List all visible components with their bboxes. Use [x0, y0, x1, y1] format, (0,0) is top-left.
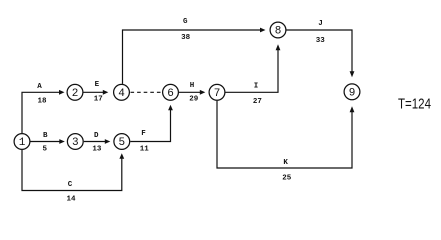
arrowhead into node 2: [59, 90, 65, 95]
arrowhead into node 7: [200, 90, 206, 95]
svg-text:B: B: [43, 132, 48, 140]
node 4: [114, 84, 130, 100]
wire activity H (node6 to node7): [179, 91, 200, 93]
svg-text:33: 33: [316, 37, 326, 45]
svg-text:4: 4: [118, 88, 125, 100]
svg-text:5: 5: [42, 146, 47, 154]
node 6: [163, 84, 179, 100]
node 9: [344, 84, 360, 100]
svg-text:T=124: T=124: [398, 96, 431, 113]
svg-text:5: 5: [118, 137, 125, 149]
svg-text:11: 11: [140, 145, 150, 153]
svg-text:25: 25: [282, 174, 292, 182]
svg-text:F: F: [141, 130, 146, 138]
svg-text:29: 29: [189, 95, 199, 103]
svg-text:G: G: [183, 18, 188, 26]
wire activity K (node7 down, right, up into node9): [217, 101, 352, 168]
arrowhead into node 5 bottom: [119, 153, 124, 159]
svg-text:E: E: [95, 81, 100, 89]
svg-text:K: K: [283, 159, 288, 167]
svg-text:8: 8: [275, 26, 282, 38]
wire activity J (node8 right then down into node9): [287, 30, 353, 72]
node 1: [14, 134, 30, 150]
node 8: [270, 22, 286, 38]
wire activity B (node1 to node3): [31, 141, 60, 143]
wire activity D (node3 to node5): [84, 141, 106, 143]
arrowhead into node 8: [260, 28, 266, 33]
svg-text:J: J: [318, 20, 323, 28]
svg-text:3: 3: [72, 137, 79, 149]
svg-text:38: 38: [181, 34, 191, 42]
arrowhead into node 9 bottom: [350, 106, 355, 112]
svg-text:7: 7: [214, 88, 221, 100]
svg-text:27: 27: [253, 98, 262, 106]
dummy activity wire (dashed node4 to node6): [131, 91, 162, 93]
arrowhead into node 5: [105, 139, 111, 144]
svg-text:1: 1: [19, 137, 26, 149]
wire activity I (node7 right then up into node8): [226, 50, 279, 93]
wire activity C (node1 down, right, up into node5): [22, 150, 122, 191]
svg-text:6: 6: [167, 88, 174, 100]
node 5: [114, 134, 130, 150]
svg-text:2: 2: [72, 88, 79, 100]
svg-text:A: A: [37, 83, 42, 91]
arrowhead into node 9 top: [350, 71, 355, 77]
node 2: [67, 84, 83, 100]
svg-text:I: I: [254, 83, 259, 91]
wire activity F (node5 right then up into node6): [130, 110, 170, 142]
svg-text:13: 13: [92, 145, 102, 153]
arrowhead into node 6 bottom: [168, 105, 173, 111]
arrowhead into node 8 bottom: [276, 44, 281, 50]
svg-text:H: H: [190, 82, 195, 90]
svg-text:17: 17: [94, 96, 103, 104]
arrowhead into node 4: [103, 90, 109, 95]
svg-text:9: 9: [349, 88, 356, 100]
node 7: [209, 84, 225, 100]
wire activity E (node2 to node4): [84, 91, 104, 93]
svg-text:D: D: [94, 132, 99, 140]
svg-text:14: 14: [66, 195, 76, 203]
wire activity G (node4 up, right into node8): [123, 30, 261, 84]
arrowhead into node 3: [59, 139, 65, 144]
svg-text:18: 18: [37, 98, 47, 106]
wire activity A (node1 up then right to node2): [22, 92, 60, 133]
svg-text:C: C: [68, 181, 73, 189]
node 3: [67, 134, 83, 150]
